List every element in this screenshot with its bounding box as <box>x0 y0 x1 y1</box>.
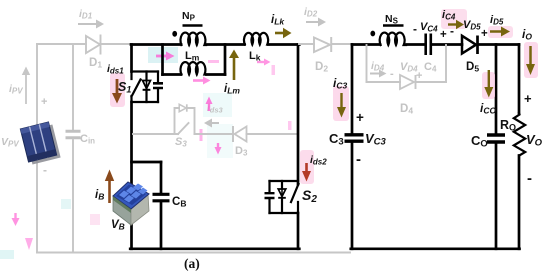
winding Np (coil) <box>180 33 206 45</box>
wire: Lm loop bottom-left segment <box>163 73 182 76</box>
current arrow ids2 (red down) <box>302 163 311 182</box>
magenta arrowhead left edge lower <box>25 238 33 250</box>
current arrow iD1 (gray right) <box>78 20 104 29</box>
wire: junction to CB <box>132 161 162 164</box>
capacitor Cin (gray) <box>66 44 81 253</box>
polarity dot Ns <box>370 31 375 37</box>
switch S2 box bottom rail <box>270 212 299 214</box>
svg-text:-: - <box>43 163 47 177</box>
wire: Lm loop left vertical <box>161 45 164 75</box>
wire: black bottom rail secondary <box>351 247 520 250</box>
svg-text:D2: D2 <box>315 61 328 74</box>
wire: gray D4 loop bottom right <box>417 81 447 83</box>
highlight cyan patch near Np left <box>148 47 178 63</box>
battery icon VB <box>113 182 149 225</box>
svg-text:-: - <box>413 22 417 36</box>
diode D1 (gray) <box>86 36 131 54</box>
pink highlight band ic3 <box>333 86 349 121</box>
svg-text:-: - <box>450 24 454 38</box>
wire: top rail Lk to S2 corner <box>268 43 299 46</box>
diode D3 (gray, pointing left) <box>233 126 298 142</box>
wire: gray top from left rail to D1 <box>37 43 86 45</box>
current arrow ids1 (brown down) <box>112 79 122 104</box>
svg-text:iLm: iLm <box>224 83 240 96</box>
body diode loop of S3 (gray) <box>175 104 195 134</box>
wire: S1 drain vertical from top rail <box>130 45 133 72</box>
svg-text:CB: CB <box>172 196 186 209</box>
svg-text:-: - <box>527 170 532 187</box>
switch S2 blade <box>291 184 299 213</box>
svg-text:Lk: Lk <box>249 50 261 63</box>
wire: Lm loop right vertical <box>224 45 227 75</box>
current arrow iPV (gray up) <box>22 67 30 105</box>
svg-text:+: + <box>416 70 422 82</box>
svg-text:D1: D1 <box>89 57 102 70</box>
pink highlight band iD5 <box>488 26 513 38</box>
diode D4 (gray) <box>400 75 416 89</box>
wire: Ns to C4 series cap <box>407 43 425 46</box>
diode D5 <box>462 36 478 55</box>
wire: gray S3 branch from S1 rail <box>133 133 178 135</box>
magenta dash right of Lk corner <box>272 65 276 75</box>
wire: D5 to output corner <box>479 43 519 46</box>
magenta dash under wire near Lm right <box>208 60 219 63</box>
wire: secondary top rail to Ns <box>352 43 380 46</box>
current arrow iD4 (gray right) <box>370 70 387 78</box>
magenta arrow under Lm coil <box>193 77 211 85</box>
wire: S1 source vertical down to bottom rail <box>130 102 133 249</box>
svg-text:iB: iB <box>95 189 104 202</box>
highlight cyan patch under Lm area <box>203 93 232 117</box>
current arrow ic4 (olive right) <box>448 20 464 29</box>
snubber capacitor of S2 <box>265 181 275 213</box>
wire: top rail Np to Lk <box>206 43 244 46</box>
pink highlight band ico <box>482 72 495 99</box>
capacitor CB <box>153 162 170 249</box>
pink highlight band ic4 <box>441 9 467 29</box>
switch S3 blade (gray) <box>178 123 189 134</box>
svg-text:iLk: iLk <box>271 14 285 27</box>
body diode of S1 <box>143 72 151 103</box>
resistor Ro (zigzag) <box>514 113 525 156</box>
svg-text:+: + <box>524 91 532 106</box>
wire: main black top rail primary <box>131 43 181 46</box>
solar panel icon <box>20 121 60 165</box>
magenta arrow left edge down <box>12 213 20 226</box>
pink smudge left of battery <box>90 214 100 225</box>
capacitor C3 <box>345 135 364 249</box>
inductor Lm (coil) <box>180 62 206 74</box>
wire: Co branch vertical <box>495 45 498 134</box>
wire: gray D4 loop bottom left <box>367 81 401 83</box>
current arrow iLm (olive up) <box>229 50 239 81</box>
magenta arrow up over ids3 <box>206 97 213 112</box>
svg-text:-: - <box>390 68 394 80</box>
switch S1 blade and stubs <box>132 72 141 103</box>
wire: S2 drain vertical <box>297 45 300 185</box>
wire: black bottom rail primary <box>130 247 299 250</box>
current arrow io (olive down) <box>526 46 535 75</box>
current arrow ico (olive down) <box>484 70 493 98</box>
wire: gray from S2 corner to D2 <box>299 43 314 45</box>
wire: gray S3 to D3 <box>195 133 234 135</box>
wire: output right corner vertical <box>518 45 521 114</box>
svg-text:+: + <box>356 110 364 125</box>
wire: S2 source vertical to bottom rail <box>297 213 300 249</box>
svg-text:VB: VB <box>111 219 125 232</box>
diode D2 (gray) <box>314 37 352 52</box>
switch S1 box top rail <box>132 70 159 72</box>
current arrow iLk (olive right) <box>275 28 292 38</box>
svg-text:D5: D5 <box>466 61 479 74</box>
body diode of S2 <box>278 181 286 213</box>
switch S1 box bottom rail <box>132 101 159 103</box>
magenta arrow on wire left of Np <box>156 52 175 61</box>
polarity dot Np <box>172 31 177 37</box>
wire: gray bottom rail <box>37 252 350 254</box>
magenta arrow under Lk <box>257 59 271 66</box>
current arrow ids3 (gray left) <box>204 119 219 128</box>
capacitor C4 series (VC4) <box>426 34 431 56</box>
wire: C4 to D5 <box>433 43 463 46</box>
snubber capacitor of S1 <box>153 72 163 103</box>
pink highlight band io <box>524 42 538 78</box>
wire: output right vertical to bottom <box>518 156 521 249</box>
pink highlight band ids1 <box>110 73 125 107</box>
pink highlight band ids2 <box>300 150 314 184</box>
switch S2 box top rail <box>270 180 299 182</box>
current arrow iD2 (gray right) <box>306 18 326 27</box>
current arrow ic3 (olive down) <box>337 93 346 118</box>
magenta dash near S3 <box>200 129 203 141</box>
wire: gray left rail <box>36 44 38 253</box>
svg-text:Lm: Lm <box>185 50 200 63</box>
svg-text:+: + <box>41 96 47 108</box>
svg-text:(a): (a) <box>184 256 200 271</box>
wire: gray D4 loop left vertical <box>366 45 368 82</box>
svg-text:-: - <box>356 151 361 168</box>
highlight cyan patch near CB top <box>61 199 71 209</box>
winding Ns (coil) <box>380 33 406 45</box>
inductor Lk (coil) <box>244 33 269 45</box>
magenta arrow down below D3 <box>215 143 222 155</box>
svg-text:+: + <box>440 29 447 41</box>
svg-text:D4: D4 <box>400 103 413 116</box>
capacitor Co <box>487 135 505 249</box>
magenta dash near S2 top <box>288 121 292 130</box>
wire: gray D4 loop right vertical <box>445 45 447 82</box>
wire: C3 branch vertical top <box>351 45 354 134</box>
current arrow iB (brown up) <box>105 170 114 204</box>
highlight cyan patch left bottom <box>0 250 14 259</box>
svg-text:+: + <box>481 28 488 40</box>
current arrow iD5 (olive right) <box>490 27 510 37</box>
wire: Lm loop bottom-right segment <box>206 73 225 76</box>
